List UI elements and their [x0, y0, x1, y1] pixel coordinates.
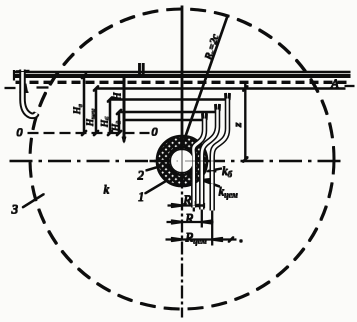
svg-text:0: 0: [17, 125, 23, 139]
svg-text:0: 0: [152, 125, 158, 139]
svg-text:R: R: [185, 212, 194, 226]
svg-text:3: 3: [11, 202, 19, 217]
svg-text:Н: Н: [113, 92, 124, 101]
svg-text:1: 1: [138, 190, 144, 204]
svg-text:k: k: [104, 183, 110, 197]
svg-text:2: 2: [138, 169, 144, 183]
svg-text:z: z: [232, 122, 244, 128]
